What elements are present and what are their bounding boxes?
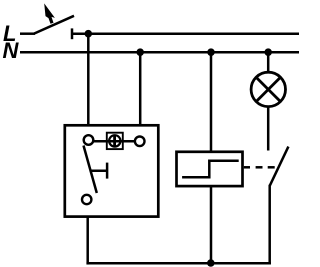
glow lamp indicator circle: [109, 135, 120, 146]
pushbutton blade: [84, 146, 97, 194]
pushbutton actuator bar: [106, 163, 109, 179]
wire bottom bus: [86, 262, 271, 265]
wire node L down to unit box: [87, 34, 90, 126]
threshold step symbol: [182, 161, 239, 178]
mechanical link stub: [244, 166, 250, 169]
relay K1 box: [177, 152, 243, 186]
node N to relay: [207, 48, 215, 56]
wire L stub: [20, 32, 35, 35]
node N to lamp: [264, 48, 272, 56]
wire N bus: [20, 51, 299, 54]
node N to unit: [136, 48, 144, 56]
terminal circle bottom-left: [82, 195, 91, 204]
relay contact blade: [270, 147, 289, 186]
switch S1 blade: [34, 16, 74, 34]
control unit U1 box: [65, 125, 159, 216]
mechanical link dash 2: [268, 166, 275, 169]
wire unit box down to bottom bus: [86, 217, 89, 265]
glow lamp indicator bar: [113, 135, 116, 148]
wire node N down to lamp: [267, 52, 270, 72]
actuation arrow cursor: [44, 3, 55, 23]
node bottom bus: [207, 259, 215, 267]
mechanical link dash 1: [256, 166, 263, 169]
wire terminal to indicator: [93, 140, 135, 143]
wire relay box down to bottom bus: [210, 186, 213, 263]
terminal circle top-right: [135, 137, 145, 147]
lamp E1: [251, 72, 285, 106]
wire right riser: [268, 185, 271, 265]
terminal circle top-left: [84, 135, 94, 145]
node L to unit: [85, 30, 93, 38]
wire node N down to relay box: [210, 52, 213, 152]
switch S1 fixed contact tick: [71, 28, 74, 39]
wire L bus: [72, 32, 299, 35]
svg-text:N: N: [3, 38, 20, 63]
glow lamp indicator frame: [107, 133, 123, 149]
wire node N down to unit box: [139, 52, 142, 125]
pushbutton actuator stem: [90, 169, 107, 172]
wire lamp to contact: [267, 107, 270, 151]
